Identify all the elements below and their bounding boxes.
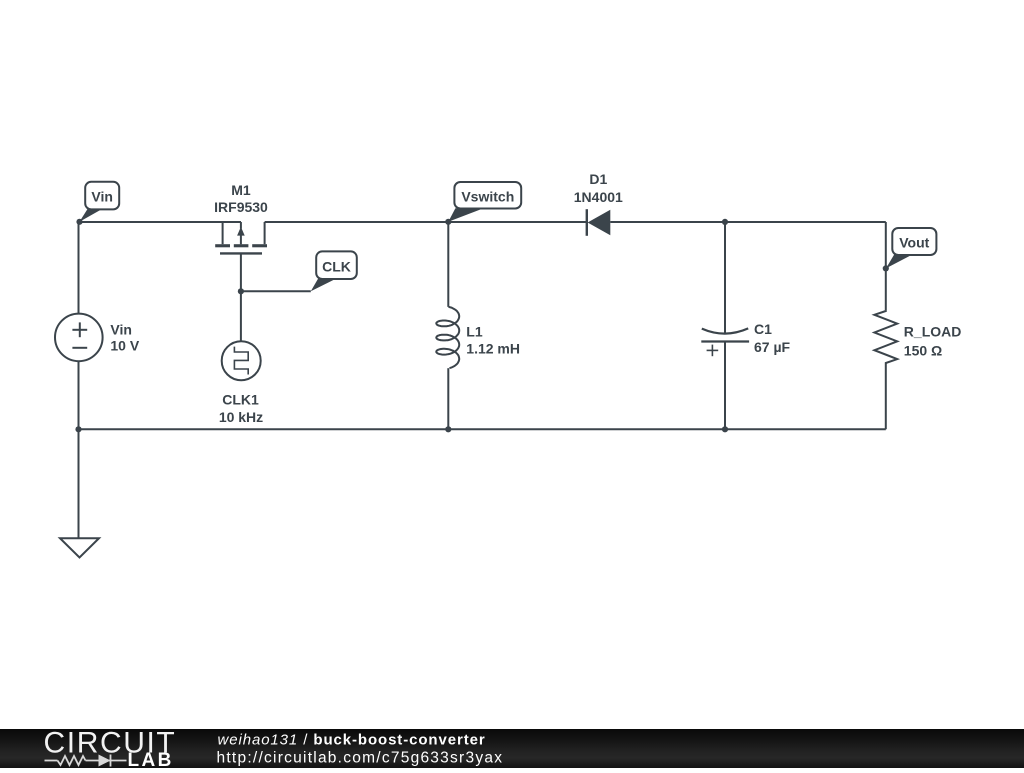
svg-text:D1: D1	[589, 171, 607, 187]
wire gate lead	[240, 253, 242, 341]
transistor M1 PMOS	[220, 222, 265, 253]
svg-text:http://circuitlab.com/c75g633s: http://circuitlab.com/c75g633sr3yax	[217, 750, 504, 767]
svg-text:Vswitch: Vswitch	[461, 189, 514, 205]
svg-text:R_LOAD: R_LOAD	[904, 324, 962, 340]
svg-text:1N4001: 1N4001	[574, 189, 623, 205]
clock source CLK1	[222, 341, 261, 380]
svg-text:C1: C1	[754, 321, 772, 337]
wire right rail upper	[885, 222, 887, 310]
node Vout flag	[886, 254, 911, 268]
svg-text:150 Ω: 150 Ω	[904, 343, 942, 359]
wire top rail middle segment	[265, 221, 587, 223]
wire bottom rail	[79, 428, 886, 430]
svg-text:67 µF: 67 µF	[754, 339, 791, 355]
node Vin flag	[80, 209, 102, 222]
svg-text:Vin: Vin	[110, 322, 132, 338]
wire top rail right segment	[610, 221, 886, 223]
junction dot Vswitch node	[445, 219, 451, 225]
svg-text:CLK1: CLK1	[222, 392, 259, 408]
svg-text:LAB: LAB	[128, 750, 174, 768]
diode D1	[586, 209, 588, 236]
junction dot bottom C1	[722, 426, 728, 432]
svg-text:Vout: Vout	[899, 235, 929, 251]
wire top rail left segment	[79, 221, 242, 223]
svg-text:10 kHz: 10 kHz	[219, 409, 263, 425]
logo squiggle: wire resistor diode	[45, 755, 127, 767]
junction dot Vin node	[76, 219, 82, 225]
svg-text:M1: M1	[231, 182, 251, 198]
wire right rail lower	[885, 364, 887, 430]
wire left rail upper	[78, 222, 80, 314]
svg-text:1.12 mH: 1.12 mH	[466, 341, 520, 357]
inductor L1	[436, 307, 459, 368]
svg-text:IRF9530: IRF9530	[214, 199, 268, 215]
junction dot bottom left	[75, 426, 81, 432]
node Vswitch flag	[448, 208, 481, 222]
wire C1 rail lower	[724, 342, 726, 430]
wire left rail lower	[78, 361, 80, 429]
wire vswitch rail upper	[447, 222, 449, 307]
wire ground stem	[78, 429, 80, 538]
svg-text:weihao131 / buck-boost-convert: weihao131 / buck-boost-converter	[218, 732, 486, 749]
svg-text:10 V: 10 V	[110, 338, 139, 354]
svg-text:CLK: CLK	[322, 258, 351, 274]
resistor R_LOAD	[874, 310, 897, 363]
junction dot bottom Vswitch	[445, 426, 451, 432]
junction dot Vout node	[883, 265, 889, 271]
node CLK flag	[311, 278, 336, 292]
svg-text:Vin: Vin	[91, 189, 113, 205]
svg-text:L1: L1	[466, 324, 483, 340]
voltage source V1 Vin	[55, 314, 103, 362]
ground	[60, 538, 99, 557]
wire vswitch rail lower	[447, 368, 449, 429]
junction dot top C1	[722, 219, 728, 225]
wire gate to CLK flag	[241, 290, 311, 292]
capacitor C1	[702, 328, 748, 333]
wire C1 rail upper	[724, 222, 726, 333]
junction dot gate node	[238, 288, 244, 294]
